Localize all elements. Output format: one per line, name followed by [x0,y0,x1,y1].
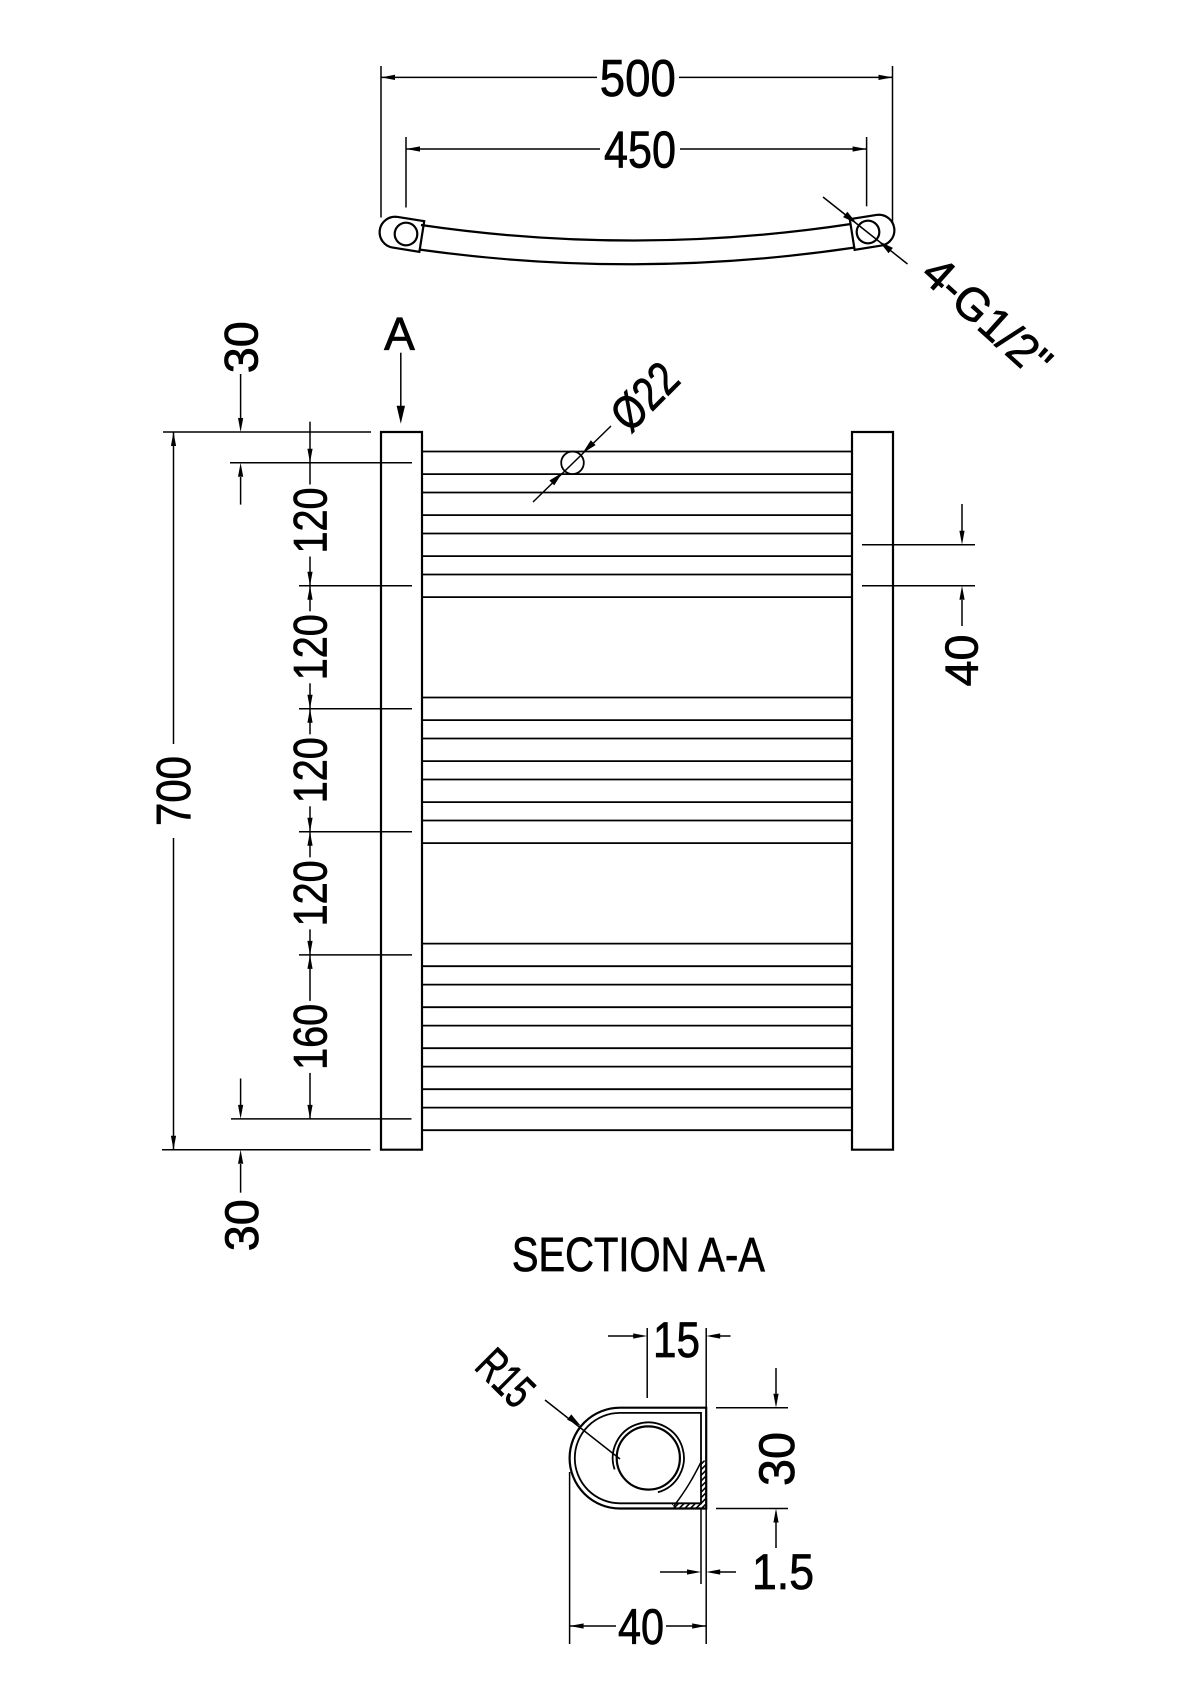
svg-text:30: 30 [749,1432,805,1486]
svg-text:120: 120 [284,737,337,803]
svg-text:1.5: 1.5 [752,1544,814,1600]
svg-text:40: 40 [936,635,988,687]
svg-text:A: A [384,308,415,360]
svg-text:120: 120 [284,860,337,926]
svg-text:450: 450 [604,122,676,180]
svg-text:SECTION A-A: SECTION A-A [512,1229,765,1282]
svg-text:30: 30 [215,1199,268,1251]
svg-text:30: 30 [214,321,267,373]
svg-text:120: 120 [284,614,337,680]
svg-text:40: 40 [618,1599,664,1655]
svg-text:700: 700 [148,756,201,826]
svg-text:4-G1/2": 4-G1/2" [912,246,1062,388]
svg-text:15: 15 [653,1312,700,1368]
svg-text:R15: R15 [466,1338,546,1418]
svg-text:160: 160 [284,1004,337,1070]
svg-text:Ø22: Ø22 [600,351,690,441]
svg-text:120: 120 [284,488,337,554]
svg-text:500: 500 [600,50,676,108]
